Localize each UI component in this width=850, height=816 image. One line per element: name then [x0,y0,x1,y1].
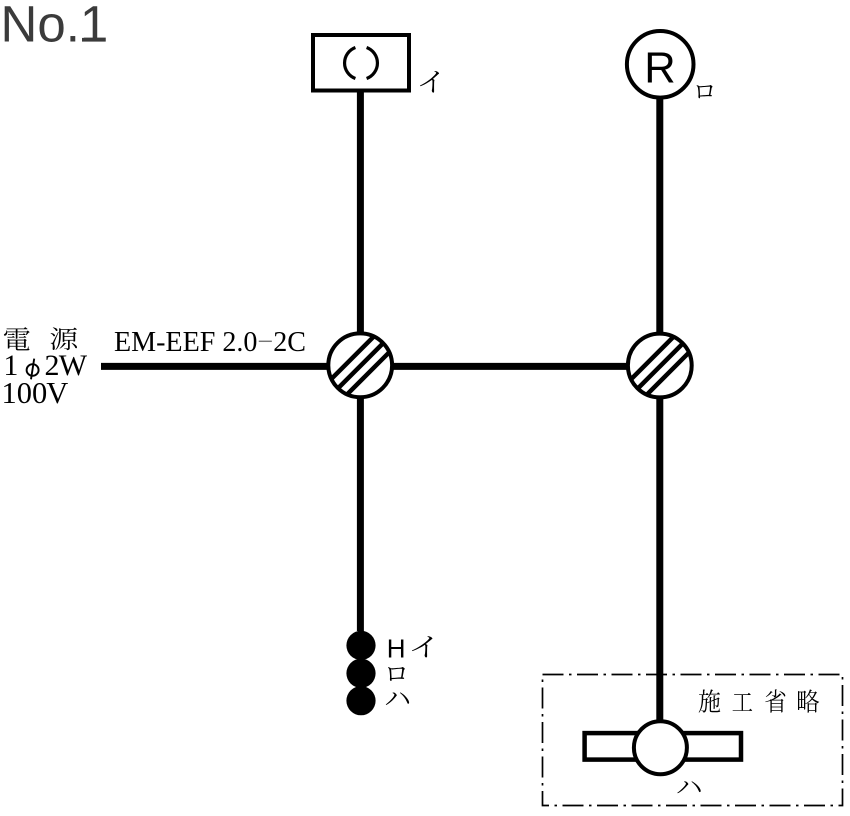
svg-text:EM-EEF 2.0−2C: EM-EEF 2.0−2C [114,326,306,358]
label 施工省略 [699,689,819,712]
lamp receptacle R [627,31,694,98]
label ロ for switch [388,667,405,681]
svg-text:H: H [387,633,406,663]
label ロ for lamp receptacle [696,85,712,98]
wire from joint box B down to lamp in omitted section [656,393,663,722]
wire from joint box A down to switches [357,393,364,631]
svg-text:R: R [644,45,675,93]
lamp fixture box (fluorescent symbol) in omitted section [585,721,741,774]
label 電源 (power source) [4,327,77,350]
label ハ for switch [386,692,409,705]
switch ロ (filled circle) [346,659,375,688]
label ハ for lamp in omitted section [677,781,700,793]
title No.1 [1,0,109,53]
switch ハ (filled circle) [346,686,375,715]
wire from ceiling light to joint box A [357,90,364,338]
joint box B (hatched circle) [600,280,751,430]
svg-text:No.1: No.1 [1,0,109,53]
label イ for ceiling fixture [420,71,439,93]
dashed box 施工省略 (construction omitted) [543,675,843,806]
label イ for switch [412,636,432,657]
ceiling rosette box fixture イ [313,35,409,91]
svg-text:100V: 100V [2,376,69,410]
wire from lamp receptacle to joint box B [656,96,663,338]
joint box A (hatched circle) [300,280,451,430]
wire power source to joint box A and joint box B (horizontal) [101,363,660,370]
switch イ with pilot lamp H (filled circle) [346,631,375,660]
